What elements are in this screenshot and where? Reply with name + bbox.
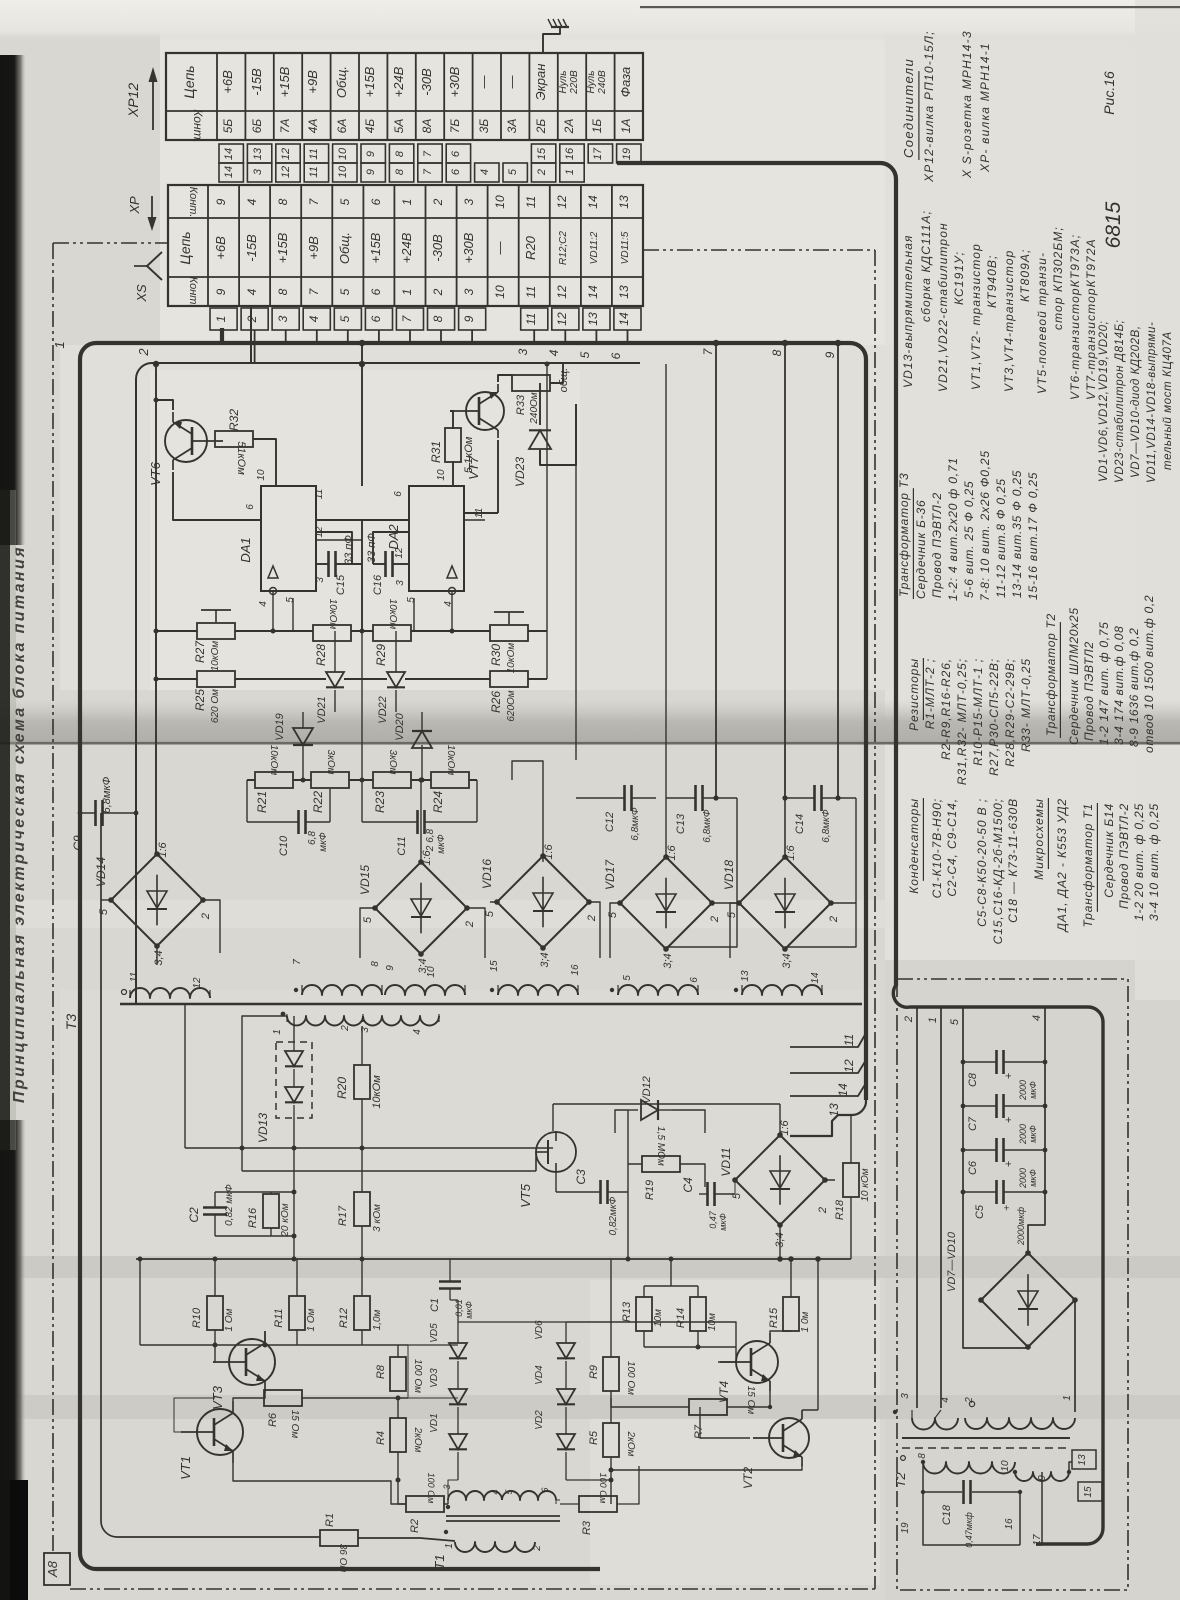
- svg-text:11: 11: [842, 1034, 856, 1046]
- svg-text:15 Ом: 15 Ом: [289, 1410, 300, 1439]
- svg-text:VD11:2: VD11:2: [589, 231, 600, 264]
- mains bus loop (thick): [893, 985, 1103, 1544]
- svg-text:R20: R20: [523, 235, 538, 260]
- svg-text:5Б: 5Б: [221, 119, 235, 134]
- svg-text:1,5 МОм: 1,5 МОм: [655, 1126, 666, 1166]
- svg-text:VD16: VD16: [480, 859, 494, 889]
- svg-text:DA2: DA2: [386, 524, 401, 550]
- wire 13: [790, 1100, 866, 1136]
- svg-text:2: 2: [464, 921, 476, 928]
- diode bridge VD14: [94, 841, 212, 965]
- svg-text:Рис.16: Рис.16: [1101, 71, 1117, 115]
- svg-text:ДА1, ДА2 - К553 УД2: ДА1, ДА2 - К553 УД2: [1055, 798, 1069, 934]
- svg-text:10: 10: [1000, 1460, 1011, 1472]
- resistor R12: [338, 1296, 383, 1330]
- svg-text:Микросхемы: Микросхемы: [1032, 798, 1046, 880]
- svg-text:1-2 147 вит. ф 0,75: 1-2 147 вит. ф 0,75: [1097, 621, 1111, 745]
- svg-text:15 Ом: 15 Ом: [745, 1386, 756, 1415]
- svg-text:мкФ: мкФ: [1028, 1169, 1038, 1187]
- svg-text:VD11,VD14-VD18-выпрями-: VD11,VD14-VD18-выпрями-: [1146, 322, 1158, 483]
- svg-text:5: 5: [949, 1018, 961, 1025]
- svg-text:Экран: Экран: [533, 64, 548, 101]
- svg-text:9: 9: [365, 151, 377, 157]
- svg-text:1: 1: [444, 1543, 455, 1549]
- svg-text:VD13-выпрямительная: VD13-выпрямительная: [901, 235, 915, 389]
- svg-text:C4: C4: [681, 1177, 695, 1193]
- svg-text:R10-Р15-МЛТ-1 ;: R10-Р15-МЛТ-1 ;: [971, 658, 985, 766]
- svg-text:C2: C2: [187, 1207, 201, 1223]
- svg-text:VD1: VD1: [429, 1413, 440, 1432]
- svg-text:3 кОм: 3 кОм: [372, 1204, 383, 1232]
- T3 primary 1-2-3-4: [272, 1012, 439, 1035]
- svg-text:стор КП302БМ;: стор КП302БМ;: [1051, 226, 1065, 330]
- svg-text:11: 11: [524, 196, 538, 208]
- svg-text:2: 2: [136, 348, 151, 357]
- capacitor C4: [681, 1177, 735, 1231]
- resistor R32: [215, 409, 253, 476]
- capacitor C11: [362, 810, 477, 856]
- svg-text:2000: 2000: [1018, 1080, 1028, 1101]
- svg-text:R4: R4: [375, 1431, 387, 1445]
- svg-text:R12;C2: R12;C2: [558, 231, 569, 265]
- resistor R17: [337, 1192, 383, 1232]
- diode bridge VD17: [603, 844, 721, 968]
- resistor R23: [373, 750, 411, 813]
- wire number cells below XS table: [210, 308, 641, 330]
- svg-text:Соединители: Соединители: [901, 58, 916, 158]
- capacitor C6: [961, 1138, 1048, 1189]
- svg-text:VD11: VD11: [719, 1147, 733, 1176]
- svg-text:R3: R3: [581, 1520, 593, 1535]
- svg-text:6,8мкФ: 6,8мкФ: [101, 776, 113, 813]
- svg-text:Сердечник ШЛМ20х25: Сердечник ШЛМ20х25: [1067, 607, 1081, 745]
- svg-text:13-14 вит.35 Ф 0,25: 13-14 вит.35 Ф 0,25: [1010, 470, 1024, 598]
- svg-text:VD15: VD15: [358, 865, 372, 895]
- capacitor C7: [961, 1094, 1048, 1145]
- svg-text:7-8: 10 вит. 2х26 Ф0,25: 7-8: 10 вит. 2х26 Ф0,25: [978, 450, 992, 601]
- svg-text:16: 16: [564, 147, 576, 160]
- resistor R1: [320, 1513, 358, 1572]
- node A8: [44, 1553, 70, 1585]
- svg-text:9: 9: [214, 198, 228, 205]
- capacitor C9: [71, 776, 138, 850]
- svg-text:R1: R1: [324, 1513, 336, 1527]
- svg-text:7: 7: [292, 959, 303, 965]
- svg-text:12: 12: [555, 312, 569, 326]
- svg-text:+9В: +9В: [305, 70, 320, 94]
- svg-text:12: 12: [394, 547, 405, 559]
- transformer T3 core: [120, 1003, 862, 1005]
- svg-text:Нуль: Нуль: [558, 70, 569, 93]
- svg-text:Провод ПЭВТЛ2: Провод ПЭВТЛ2: [1082, 641, 1096, 741]
- svg-text:R19: R19: [644, 1180, 656, 1200]
- svg-text:R12: R12: [338, 1308, 350, 1328]
- svg-text:10кОм: 10кОм: [268, 745, 279, 776]
- text: transformer T3 data: [897, 450, 1040, 601]
- svg-text:R29: R29: [374, 644, 388, 666]
- diode bridge VD11: [719, 1119, 829, 1247]
- svg-text:2: 2: [586, 915, 598, 922]
- svg-text:100 Ом: 100 Ом: [625, 1361, 636, 1395]
- capacitor C10: [247, 810, 330, 856]
- svg-text:6: 6: [369, 198, 383, 205]
- svg-text:Конт.: Конт.: [187, 187, 199, 218]
- svg-text:14: 14: [586, 195, 600, 209]
- diode chain VD2 VD4 VD6: [534, 1320, 575, 1480]
- svg-text:Общ.: Общ.: [334, 66, 349, 98]
- svg-text:R26: R26: [489, 691, 503, 713]
- svg-text:51кОм: 51кОм: [235, 441, 247, 475]
- svg-text:100 Ом: 100 Ом: [426, 1473, 436, 1504]
- diode VD22: [377, 672, 405, 724]
- svg-text:240Ом: 240Ом: [529, 392, 540, 424]
- svg-text:Провод ПЭВТЛ-2: Провод ПЭВТЛ-2: [930, 492, 944, 598]
- svg-text:12: 12: [280, 148, 292, 160]
- resistor R11: [273, 1296, 317, 1331]
- svg-text:8: 8: [394, 150, 406, 157]
- svg-text:R5: R5: [588, 1430, 600, 1445]
- svg-text:5: 5: [731, 1192, 743, 1199]
- svg-text:1 Ом: 1 Ом: [224, 1308, 235, 1331]
- svg-text:10кОм: 10кОм: [387, 599, 398, 630]
- svg-text:1: 1: [1062, 1395, 1073, 1401]
- capacitor C18 loop: [921, 1462, 1022, 1548]
- power unit dash-dot box: [897, 979, 1128, 1590]
- svg-text:R11: R11: [273, 1308, 285, 1327]
- svg-text:R1-МЛТ-2 ;: R1-МЛТ-2 ;: [923, 658, 937, 729]
- svg-text:С2-С4, С9-С14,: С2-С4, С9-С14,: [945, 798, 959, 897]
- svg-text:R27,Р30-СП5-22В;: R27,Р30-СП5-22В;: [987, 658, 1001, 776]
- svg-text:1: 1: [52, 341, 67, 348]
- svg-text:VD17: VD17: [603, 859, 617, 890]
- main mid wire y1259: [136, 1258, 851, 1260]
- transistor VT4: [717, 1333, 778, 1403]
- diode bridge VD7-VD10: [978, 1250, 1078, 1350]
- op-amp DA2: [386, 469, 485, 607]
- svg-text:R9: R9: [588, 1365, 600, 1379]
- T3 winding 5-6: [610, 975, 700, 995]
- svg-text:8: 8: [370, 961, 381, 967]
- diode bridge VD16: [480, 843, 598, 967]
- svg-text:4: 4: [547, 349, 561, 356]
- wire pin2: [916, 1007, 918, 1408]
- svg-text:4: 4: [940, 1397, 951, 1403]
- svg-text:10кОм: 10кОм: [371, 1075, 383, 1109]
- wires regulator block verticals: [155, 364, 157, 855]
- svg-text:7: 7: [422, 168, 434, 175]
- svg-text:мкФ: мкФ: [464, 1301, 474, 1319]
- svg-text:11: 11: [524, 286, 538, 298]
- wires resistor rows: [156, 630, 547, 632]
- text: transformer T2 data: [1044, 595, 1156, 753]
- svg-text:VD1-VD6,VD12,VD19,VD20;: VD1-VD6,VD12,VD19,VD20;: [1098, 321, 1110, 482]
- svg-text:2кОм: 2кОм: [412, 1427, 423, 1453]
- svg-text:3Б: 3Б: [477, 119, 491, 134]
- resistor R28: [313, 599, 351, 666]
- svg-text:R8: R8: [375, 1364, 387, 1379]
- svg-text:R20: R20: [335, 1077, 349, 1099]
- transistor VT2: [741, 1410, 809, 1489]
- svg-text:1 Ом: 1 Ом: [306, 1308, 317, 1331]
- svg-text:3;4: 3;4: [539, 952, 551, 967]
- resistor R21: [255, 745, 293, 813]
- svg-text:VD18: VD18: [722, 860, 736, 890]
- wire pin5 / cap rail left: [963, 1007, 1028, 1348]
- svg-text:4: 4: [490, 1489, 500, 1494]
- svg-text:2: 2: [431, 288, 445, 296]
- svg-text:Конт.: Конт.: [187, 277, 199, 308]
- mains wire bundle to T2 box: [617, 163, 896, 986]
- svg-text:5: 5: [484, 910, 496, 917]
- wire obsh: [540, 363, 576, 465]
- svg-text:2: 2: [200, 913, 212, 920]
- text: diode types list: [1098, 320, 1174, 483]
- svg-text:11: 11: [308, 166, 320, 177]
- svg-text:VT1,VT2- транзистор: VT1,VT2- транзистор: [969, 243, 983, 390]
- wire 6: [627, 330, 629, 343]
- svg-text:-30В: -30В: [419, 68, 434, 96]
- svg-text:C9: C9: [71, 835, 85, 851]
- svg-text:мкФ: мкФ: [1028, 1081, 1038, 1099]
- svg-text:4: 4: [245, 198, 259, 205]
- wire 5: [595, 330, 597, 343]
- wire 2: [136, 306, 640, 1003]
- svg-text:0,47: 0,47: [708, 1210, 718, 1229]
- svg-text:R30: R30: [489, 644, 503, 666]
- svg-text:100 Ом: 100 Ом: [412, 1359, 423, 1393]
- svg-text:5: 5: [362, 916, 374, 923]
- resistor R18: [834, 1163, 871, 1220]
- svg-text:5-6 вит. 25 Ф 0,25: 5-6 вит. 25 Ф 0,25: [962, 481, 976, 598]
- transformer T1: [432, 1484, 560, 1569]
- svg-text:6Б: 6Б: [250, 119, 264, 134]
- svg-text:3: 3: [462, 288, 476, 295]
- svg-text:10кОм: 10кОм: [506, 643, 517, 674]
- svg-text:10 кОм: 10 кОм: [860, 1168, 871, 1201]
- svg-text:1: 1: [400, 199, 414, 206]
- svg-text:36 Ом: 36 Ом: [337, 1544, 348, 1573]
- svg-text:тельный мост КЦ407А: тельный мост КЦ407А: [1162, 331, 1174, 470]
- XP12 pin number strip: [219, 144, 641, 163]
- wire 12: [790, 1060, 866, 1073]
- svg-text:13: 13: [1077, 1454, 1088, 1466]
- svg-text:C8: C8: [967, 1072, 979, 1087]
- svg-text:сборка КДС111А;: сборка КДС111А;: [919, 210, 933, 322]
- svg-text:VT5-полевой транзи-: VT5-полевой транзи-: [1035, 252, 1049, 394]
- svg-text:14: 14: [836, 1083, 850, 1097]
- svg-text:3;4: 3;4: [662, 953, 674, 968]
- svg-text:19: 19: [621, 148, 633, 160]
- svg-text:Конденсаторы: Конденсаторы: [907, 798, 921, 894]
- svg-text:3: 3: [516, 348, 530, 355]
- svg-text:VD2: VD2: [534, 1410, 545, 1430]
- svg-text:3-4 174 вит.ф 0,08: 3-4 174 вит.ф 0,08: [1112, 626, 1126, 745]
- svg-text:11: 11: [524, 313, 538, 325]
- svg-text:19: 19: [900, 1522, 911, 1534]
- svg-text:Общ.: Общ.: [337, 232, 352, 264]
- svg-text:VT1: VT1: [178, 1456, 193, 1480]
- svg-text:12: 12: [555, 195, 569, 209]
- resistor R16: [247, 1194, 291, 1238]
- T2 secondary winding 8-10-9: [901, 1453, 1069, 1481]
- svg-text:VD7—VD10: VD7—VD10: [946, 1231, 958, 1292]
- svg-text:4Б: 4Б: [363, 119, 377, 134]
- wire verticals bottom: [140, 1259, 408, 1345]
- svg-text:15: 15: [489, 960, 500, 972]
- svg-text:1: 1: [400, 289, 414, 296]
- svg-text:А8: А8: [45, 1560, 60, 1578]
- svg-text:6: 6: [689, 977, 700, 983]
- svg-text:5: 5: [726, 911, 738, 918]
- text: resistors list: [907, 658, 1033, 785]
- svg-text:T2: T2: [893, 1472, 908, 1488]
- svg-text:6: 6: [393, 491, 404, 497]
- resistor R13: [621, 1297, 664, 1331]
- svg-text:1 0м: 1 0м: [800, 1311, 811, 1332]
- ground (screen): [543, 19, 569, 53]
- svg-text:4: 4: [412, 1029, 423, 1035]
- svg-text:3кОм: 3кОм: [387, 750, 398, 775]
- svg-text:-30В: -30В: [430, 234, 445, 262]
- svg-text:4: 4: [307, 315, 321, 322]
- svg-text:отвод 10 1500 вит.ф 0,2: отвод 10 1500 вит.ф 0,2: [1142, 595, 1156, 753]
- svg-text:—: —: [492, 241, 507, 256]
- svg-text:—: —: [504, 75, 519, 90]
- svg-text:6,8мкФ: 6,8мкФ: [702, 809, 713, 842]
- wire 4: [564, 330, 566, 343]
- svg-text:1А: 1А: [619, 119, 633, 134]
- svg-text:T3: T3: [63, 1014, 79, 1031]
- svg-text:C18: C18: [941, 1504, 953, 1525]
- svg-text:+15В: +15В: [275, 232, 290, 263]
- svg-text:5: 5: [622, 975, 633, 981]
- dash-dot unit frame: [53, 242, 168, 244]
- capacitor C15: [316, 532, 355, 595]
- diode bridge VD18: [722, 844, 840, 968]
- resistor R10: [191, 1296, 235, 1331]
- svg-text:5: 5: [338, 288, 352, 295]
- svg-text:мкФ: мкФ: [436, 834, 447, 854]
- resistor R33: [512, 375, 550, 425]
- svg-text:XS: XS: [134, 284, 149, 303]
- T2 core: [902, 1437, 1070, 1439]
- svg-text:VT5: VT5: [518, 1183, 533, 1208]
- svg-text:+15В: +15В: [368, 232, 383, 263]
- resistor R7: [689, 1386, 756, 1439]
- svg-text:R10: R10: [191, 1307, 203, 1328]
- svg-text:6,8мкФ: 6,8мкФ: [821, 809, 832, 842]
- svg-text:+24В: +24В: [399, 232, 414, 263]
- svg-text:3: 3: [395, 580, 406, 586]
- svg-text:С15,С16-КД-2б-М1500;: С15,С16-КД-2б-М1500;: [991, 798, 1005, 944]
- svg-text:12: 12: [192, 977, 203, 989]
- svg-text:VT3,VT4-транзистор: VT3,VT4-транзистор: [1002, 250, 1016, 392]
- svg-text:3: 3: [462, 198, 476, 205]
- svg-text:2000: 2000: [1018, 1168, 1028, 1189]
- svg-text:C16: C16: [372, 574, 384, 595]
- svg-text:0,82мкФ: 0,82мкФ: [608, 1196, 619, 1235]
- svg-text:11: 11: [308, 148, 320, 159]
- wire 3: [533, 330, 535, 343]
- svg-text:Провод ПЭВТЛ-2: Провод ПЭВТЛ-2: [1117, 803, 1131, 909]
- svg-text:220В: 220В: [569, 70, 580, 95]
- svg-text:6,8мкФ: 6,8мкФ: [630, 807, 641, 840]
- svg-text:R21: R21: [255, 791, 269, 813]
- diode VD23: [513, 415, 551, 487]
- svg-text:13: 13: [740, 970, 751, 982]
- svg-text:Трансформатор Т3: Трансформатор Т3: [897, 472, 911, 597]
- wires R21-R24 row: [247, 779, 477, 781]
- text: connectors list: [901, 30, 992, 183]
- svg-text:3кОм: 3кОм: [325, 750, 336, 775]
- svg-text:общ.: общ.: [558, 368, 570, 393]
- svg-text:2: 2: [817, 1207, 829, 1214]
- svg-text:С1-К10-7В-Н90;: С1-К10-7В-Н90;: [930, 798, 944, 898]
- svg-text:5: 5: [338, 198, 352, 205]
- svg-text:14: 14: [223, 166, 235, 178]
- svg-text:VT7: VT7: [466, 455, 481, 480]
- svg-text:12: 12: [280, 166, 292, 178]
- svg-text:7А: 7А: [278, 119, 292, 134]
- wires DA2-R31-VT7: [450, 411, 453, 486]
- svg-text:20 кОм: 20 кОм: [280, 1203, 291, 1237]
- diode VD12: [628, 1076, 672, 1120]
- text: capacitors list: [907, 798, 1020, 944]
- svg-text:R14: R14: [675, 1308, 687, 1328]
- svg-text:+24В: +24В: [391, 66, 406, 97]
- svg-text:КС191У;: КС191У;: [952, 251, 966, 305]
- svg-text:8: 8: [394, 168, 406, 175]
- svg-text:VT6-транзисторКТ973А;: VT6-транзисторКТ973А;: [1068, 234, 1082, 400]
- svg-text:9: 9: [462, 315, 476, 322]
- svg-text:9: 9: [214, 288, 228, 295]
- resistor R25: [193, 671, 235, 723]
- svg-text:Цепь: Цепь: [181, 65, 197, 98]
- svg-text:Сердечник Б14: Сердечник Б14: [1102, 803, 1116, 898]
- svg-text:14: 14: [617, 312, 631, 326]
- resistor R26: [489, 671, 528, 722]
- svg-text:R6: R6: [267, 1412, 279, 1427]
- svg-text:2кОм: 2кОм: [625, 1431, 636, 1457]
- svg-text:2: 2: [709, 916, 721, 923]
- label XP with arrow: [127, 196, 157, 231]
- capacitor C13: [666, 785, 737, 843]
- svg-text:КТ809А;: КТ809А;: [1018, 249, 1032, 302]
- svg-text:5А: 5А: [392, 119, 406, 134]
- bottom right wiring: [610, 1259, 612, 1504]
- svg-text:C11: C11: [396, 836, 408, 855]
- svg-text:VD12: VD12: [641, 1076, 653, 1104]
- svg-text:R23: R23: [373, 791, 387, 813]
- label XP12 with arrow: [125, 67, 158, 130]
- svg-text:10: 10: [256, 469, 267, 481]
- svg-text:Фаза: Фаза: [618, 67, 633, 97]
- svg-text:11-12 вит.8 Ф 0,25: 11-12 вит.8 Ф 0,25: [994, 478, 1008, 598]
- svg-text:C7: C7: [967, 1116, 979, 1131]
- svg-text:1Б: 1Б: [590, 119, 604, 134]
- svg-text:VD22: VD22: [377, 696, 389, 724]
- svg-text:10кОм: 10кОм: [210, 641, 221, 672]
- svg-text:3: 3: [252, 168, 264, 175]
- svg-text:13: 13: [827, 1103, 841, 1117]
- rectifier assembly VD13: [256, 1042, 312, 1143]
- svg-text:VD4: VD4: [534, 1365, 545, 1385]
- svg-text:VD13: VD13: [256, 1113, 270, 1143]
- svg-text:X S-розетка МРН14-3: X S-розетка МРН14-3: [960, 30, 974, 179]
- svg-text:-15В: -15В: [244, 234, 259, 262]
- wire 9: [837, 343, 839, 798]
- connector table XS/XP: [168, 185, 643, 307]
